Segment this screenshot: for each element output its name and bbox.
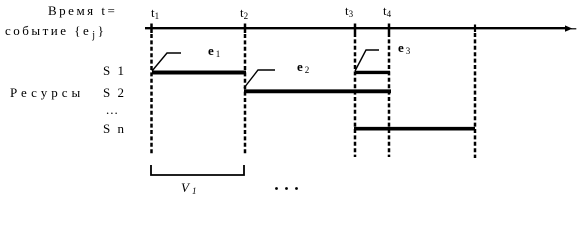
callout leader e3	[355, 50, 379, 71]
tick t4	[388, 24, 391, 34]
callout leader e2	[244, 70, 275, 88]
tick t3	[354, 24, 357, 34]
dashed vertical at t4	[388, 33, 391, 157]
bar e3 (S1 row, t3..t4)	[355, 71, 390, 74]
svg-text:Ресурсы: Ресурсы	[10, 85, 84, 100]
callout leader e1	[152, 53, 181, 71]
axis arrowhead	[565, 25, 573, 31]
bar Sn row (t3..x475)	[354, 127, 475, 131]
tick t2	[244, 24, 247, 34]
dashed vertical at t1	[150, 34, 153, 155]
svg-text:Время t=: Время t=	[48, 3, 117, 18]
time axis	[145, 27, 566, 29]
bottom ellipsis dots	[275, 187, 278, 190]
dashed vertical at t3	[354, 33, 357, 157]
bar e2 (S2 row, t2..t4)	[244, 89, 391, 93]
svg-text:...: ...	[106, 102, 119, 117]
svg-text:S 2: S 2	[103, 85, 126, 100]
V1 interval bracket	[151, 165, 244, 175]
svg-text:S n: S n	[103, 121, 126, 136]
svg-text:S 1: S 1	[103, 63, 126, 78]
bar e1 (S1 row, t1..t2)	[152, 71, 246, 75]
dashed vertical at t2	[244, 34, 247, 155]
tick x=475	[474, 25, 476, 33]
dashed vertical at x=475	[474, 33, 477, 158]
tick t1	[150, 24, 153, 34]
axis arrow tail	[571, 28, 576, 30]
